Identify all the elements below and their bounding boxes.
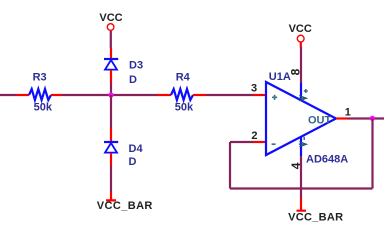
wire: feedback left vertical: [229, 142, 231, 189]
wire: vertical from pin 4 down: [300, 156, 302, 198]
resistor R4: [171, 89, 193, 100]
resistor R3 pin left (red): [17, 94, 30, 96]
svg-text:R3: R3: [33, 72, 47, 84]
wire: vertical from D3 to node: [110, 83, 112, 95]
power symbol VCC_BAR (right): [288, 211, 343, 223]
diode D3 cathode pin (red): [110, 48, 112, 59]
wire: vertical from VCC to diode D3: [110, 31, 112, 48]
label R3: [33, 72, 47, 84]
wire: feedback bottom horizontal: [230, 187, 373, 189]
op-amp minus input marker: [272, 143, 276, 145]
svg-text:VCC: VCC: [99, 12, 122, 24]
wire: horizontal from R4 to op-amp: [206, 94, 253, 96]
power symbol VCC_BAR (left): [97, 200, 153, 212]
power symbol VCC (left): [99, 12, 122, 31]
power pin stub to VCC_BAR right (red): [297, 198, 307, 211]
resistor R4 pin left (red): [157, 94, 171, 96]
label U1A: [269, 71, 291, 83]
op-amp U1A body: [266, 82, 336, 155]
power symbol VCC (right): [289, 23, 312, 42]
op-amp plus input marker: [272, 95, 277, 100]
V+ marker at pin 8: [304, 89, 308, 93]
power pin arrow at pin 4: [299, 142, 307, 147]
diode D4 cathode pin (red): [110, 128, 112, 142]
svg-text:50k: 50k: [34, 102, 53, 114]
label D4: [129, 143, 144, 155]
diode D4: [104, 142, 118, 153]
svg-text:D4: D4: [129, 143, 144, 155]
svg-text:1: 1: [345, 107, 351, 119]
pin 2 stub of op-amp (red): [254, 141, 267, 143]
svg-text:R4: R4: [176, 72, 191, 84]
diode D3 anode pin (red): [110, 70, 112, 83]
svg-text:50k: 50k: [175, 102, 194, 114]
power pin stub to VCC_BAR (red): [106, 192, 116, 201]
wire: horizontal between R3 and R4 through node: [62, 94, 157, 96]
pin number 4 (rotated): [289, 162, 303, 169]
svg-text:VCC_BAR: VCC_BAR: [97, 200, 153, 212]
resistor R4 pin right (red): [193, 94, 206, 96]
V- marker at pin 4: [303, 137, 305, 140]
wire: output to right edge: [349, 117, 384, 119]
svg-text:VCC_BAR: VCC_BAR: [288, 211, 343, 223]
svg-text:D: D: [129, 74, 137, 86]
svg-text:OUT: OUT: [308, 115, 332, 127]
label R4: [176, 72, 191, 84]
wire: vertical from D4 to VCC_BAR: [110, 166, 112, 192]
pin number 8 (rotated): [289, 68, 303, 75]
svg-text:8: 8: [289, 68, 303, 75]
pin 8 of op-amp (blue): [300, 83, 302, 101]
power pin stub below VCC right (red): [300, 42, 302, 47]
value 50k of R4: [175, 102, 194, 114]
wire: feedback to pin 2: [230, 141, 254, 143]
svg-text:D: D: [129, 156, 137, 168]
wire: vertical from VCC to op-amp pin 8: [300, 47, 302, 83]
value D of D4: [129, 156, 137, 168]
wire: main horizontal segment from left edge: [0, 94, 17, 96]
value 50k of R3: [34, 102, 53, 114]
svg-text:2: 2: [251, 130, 257, 142]
value D of D3: [129, 74, 137, 86]
pin number 2: [251, 130, 257, 142]
wire: vertical from node down to D4: [110, 95, 112, 128]
label OUT: [308, 115, 332, 127]
pin 1 output stub of op-amp (red): [336, 117, 349, 119]
node junction on output wire: [370, 116, 375, 121]
svg-text:AD648A: AD648A: [306, 154, 348, 166]
pin number 1: [345, 107, 351, 119]
pin 4 of op-amp (blue): [300, 137, 302, 157]
label D3: [129, 60, 143, 72]
pin number 3: [251, 83, 257, 95]
resistor R3: [29, 89, 51, 100]
value AD648A: [306, 154, 348, 166]
svg-text:3: 3: [251, 83, 257, 95]
power pin arrow at pin 8: [299, 96, 307, 101]
diode D3: [104, 59, 118, 70]
svg-text:VCC: VCC: [289, 23, 312, 35]
svg-text:D3: D3: [129, 60, 143, 72]
diode D4 anode pin (red): [110, 153, 112, 166]
pin 3 stub of op-amp (red): [253, 94, 266, 96]
node junction on main wire: [108, 92, 113, 97]
resistor R3 pin right (red): [51, 94, 62, 96]
wire: feedback right vertical: [371, 119, 373, 189]
